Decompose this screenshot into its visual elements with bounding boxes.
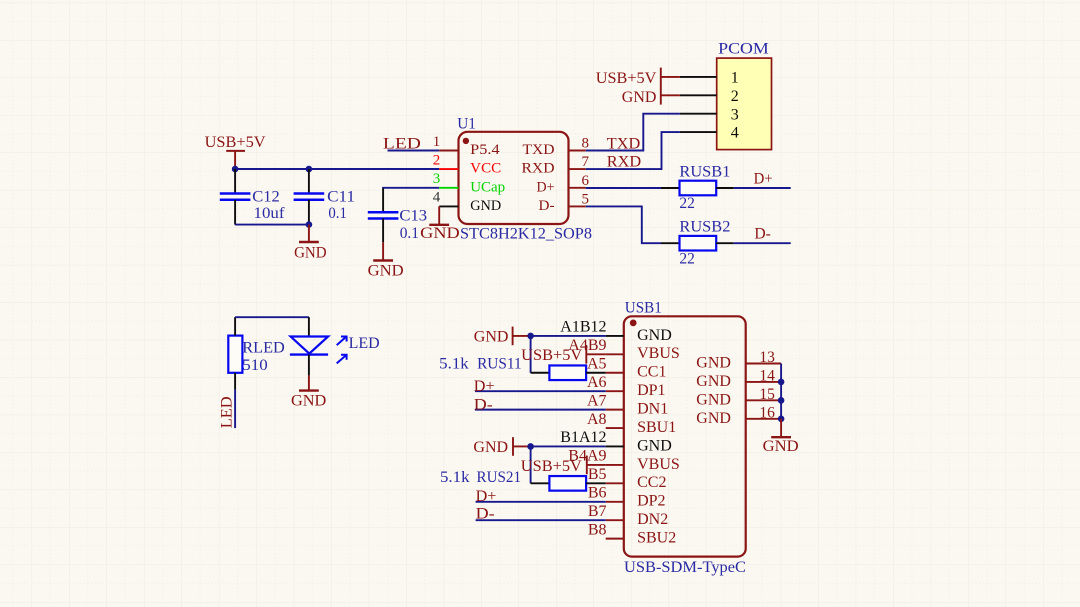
USB1 pin 13 (GND): [696, 349, 781, 371]
USB1 pin A8 (SBU1): [587, 411, 676, 436]
U1 pin 8 (TXD): [523, 136, 590, 159]
svg-text:CC1: CC1: [637, 364, 666, 381]
wire junction down to RUS11: [530, 336, 532, 373]
svg-text:RUSB2: RUSB2: [679, 218, 730, 235]
svg-text:B1A12: B1A12: [560, 429, 606, 446]
LED cathode pin: [308, 355, 310, 376]
node junction pin14: [778, 379, 785, 386]
svg-text:22: 22: [679, 195, 695, 212]
svg-text:1: 1: [433, 134, 441, 150]
resistor RLED bottom pin: [234, 373, 236, 390]
svg-text:VBUS: VBUS: [637, 456, 680, 473]
svg-text:B7: B7: [588, 503, 607, 520]
node junction at C11 top: [306, 166, 313, 173]
PCOM pin 1: [680, 70, 739, 87]
svg-text:GND: GND: [696, 373, 731, 390]
power port GND at PCOM pin2: [622, 86, 680, 106]
label RUSB1: [679, 163, 730, 212]
svg-text:D+: D+: [754, 170, 773, 187]
USB1 pin A4B9 (VBUS): [568, 337, 680, 362]
resistor RUS21 right pin: [586, 482, 606, 484]
svg-text:D-: D-: [476, 506, 495, 523]
ground GND below C13: [368, 242, 404, 279]
svg-text:GND: GND: [696, 410, 731, 427]
wire VCC rail (USB+5V to U1 pin2): [235, 168, 439, 170]
svg-text:0.1: 0.1: [328, 205, 347, 222]
USB1 pin 14 (GND): [696, 368, 781, 390]
USB1 pin 16 (GND): [696, 404, 781, 426]
svg-text:GND: GND: [763, 438, 799, 455]
USB1 pin B1A12 (GND): [560, 429, 672, 454]
svg-text:STC8H2K12_SOP8: STC8H2K12_SOP8: [460, 225, 592, 242]
node junction pin15: [778, 397, 785, 404]
svg-text:USB+5V: USB+5V: [521, 458, 582, 475]
svg-text:DP2: DP2: [637, 493, 665, 510]
USB1 pin A7 (DN1): [587, 392, 668, 417]
svg-text:4: 4: [731, 125, 739, 142]
wire D+ net (right of RUSB1): [734, 187, 791, 189]
svg-text:13: 13: [759, 349, 775, 366]
svg-text:GND: GND: [473, 439, 508, 456]
wire D+ to pin B6: [476, 501, 606, 503]
svg-text:2: 2: [433, 152, 441, 168]
wire LED net to U1 pin1: [388, 150, 440, 152]
USB1 pin A6 (DP1): [587, 374, 666, 399]
label RLED value: [242, 340, 284, 374]
svg-text:D-: D-: [754, 225, 771, 242]
resistor RLED top pin: [234, 317, 236, 335]
ground GND below C11: [294, 225, 327, 262]
U1 pin 5 (D-): [539, 191, 590, 214]
connector PCOM body: [717, 58, 772, 150]
svg-text:GND: GND: [696, 391, 731, 408]
svg-text:8: 8: [582, 136, 590, 152]
USB1 pin B5 (CC2): [588, 466, 667, 491]
U1 pin 3 (UCap): [433, 171, 505, 195]
PCOM pin 2: [680, 88, 739, 105]
svg-text:A5: A5: [587, 355, 607, 372]
svg-text:2: 2: [731, 88, 739, 105]
node junction at C11 bottom: [306, 221, 313, 228]
LED light arrow 1: [337, 337, 347, 346]
resistor RUSB1 body: [680, 181, 717, 196]
svg-text:P5.4: P5.4: [470, 142, 500, 158]
svg-text:DN2: DN2: [637, 511, 668, 528]
wire UCap (U1 pin3 to C13): [383, 188, 439, 189]
resistor RUSB2 right pin: [716, 242, 734, 244]
svg-text:USB-SDM-TypeC: USB-SDM-TypeC: [624, 559, 746, 576]
U1 pin 4 (GND): [433, 190, 502, 214]
wire GND to pin B1A12: [531, 445, 606, 447]
USB1 pin A1B12 (GND): [560, 319, 672, 344]
PCOM pin 4: [680, 125, 739, 142]
svg-text:RUS21: RUS21: [477, 469, 522, 486]
svg-text:RUS11: RUS11: [477, 355, 521, 372]
svg-text:5.1k: 5.1k: [439, 355, 469, 372]
resistor RUS21 body: [549, 476, 586, 491]
LED light arrow 2: [337, 355, 347, 364]
resistor RUS11 left pin: [531, 372, 550, 374]
svg-text:DN1: DN1: [637, 401, 668, 418]
svg-text:C12: C12: [252, 188, 279, 205]
U1 pin 6 (D+): [537, 173, 590, 196]
svg-text:PCOM: PCOM: [718, 41, 769, 58]
USB1 pin B8 (SBU2): [588, 521, 676, 546]
svg-text:RUSB1: RUSB1: [679, 163, 730, 180]
power port USB+5V (top left): [205, 134, 266, 169]
capacitor C13: [368, 188, 399, 242]
svg-text:GND: GND: [291, 392, 326, 409]
svg-text:GND: GND: [294, 244, 327, 261]
PCOM pin 3: [680, 106, 739, 123]
label C13 value: [399, 207, 427, 241]
svg-text:GND: GND: [622, 89, 657, 106]
svg-text:RXD: RXD: [522, 161, 555, 177]
svg-text:C13: C13: [399, 207, 427, 224]
wire D- net (right of RUSB2): [734, 242, 791, 244]
svg-text:UCap: UCap: [470, 179, 505, 195]
svg-text:A6: A6: [587, 374, 607, 391]
label RUS11: [439, 355, 521, 372]
svg-text:1: 1: [731, 70, 739, 87]
USB1 pin B6 (DP2): [588, 484, 666, 509]
wire RXD (U1 pin7 to PCOM pin4): [586, 132, 680, 169]
resistor RUS11 right pin: [586, 372, 606, 374]
U1 pin 7 (RXD): [522, 154, 590, 177]
USB1 pin 15 (GND): [696, 386, 781, 408]
svg-text:SBU1: SBU1: [637, 419, 676, 436]
svg-text:C11: C11: [327, 188, 355, 205]
resistor RUSB2 body: [680, 236, 717, 251]
svg-text:RLED: RLED: [242, 340, 284, 357]
wire D+ to pin A6: [475, 390, 606, 392]
node junction at C12 top: [232, 166, 239, 173]
svg-text:6: 6: [582, 173, 590, 189]
power port USB+5V at PCOM pin1: [596, 68, 680, 88]
USB1 pin A5 (CC1): [587, 355, 667, 380]
node junction pin16: [778, 415, 785, 422]
node junction at RUS21 top: [527, 443, 534, 450]
svg-text:GND: GND: [474, 328, 509, 345]
svg-text:GND: GND: [696, 355, 731, 372]
svg-text:USB+5V: USB+5V: [596, 70, 657, 87]
label RUSB2: [679, 218, 730, 267]
wire GND to pin A1B12: [531, 335, 606, 337]
wire U1 pin6 to RUSB1: [586, 187, 661, 189]
svg-text:TXD: TXD: [607, 136, 640, 153]
svg-text:4: 4: [433, 190, 441, 206]
op IC U1 body STC8H2K12_SOP8: [459, 132, 569, 224]
power port USB+5V at USB1 A4B9: [521, 345, 606, 364]
svg-text:A1B12: A1B12: [560, 319, 606, 336]
svg-text:CC2: CC2: [637, 474, 666, 491]
wire D- to pin B7: [476, 519, 606, 521]
svg-text:15: 15: [759, 386, 775, 403]
svg-text:GND: GND: [368, 262, 404, 279]
resistor RLED body: [228, 336, 242, 373]
node junction at RUS11 top: [527, 333, 534, 340]
svg-text:B8: B8: [588, 521, 607, 538]
power port GND at USB1 B1A12: [473, 437, 530, 456]
svg-text:A7: A7: [587, 392, 607, 409]
svg-text:SBU2: SBU2: [637, 530, 676, 547]
svg-text:16: 16: [759, 404, 775, 421]
label C12 value: [252, 188, 285, 222]
svg-text:USB1: USB1: [625, 300, 662, 317]
svg-text:USB+5V: USB+5V: [205, 134, 266, 151]
resistor RUSB2 left pin: [661, 242, 680, 244]
svg-text:3: 3: [731, 106, 739, 123]
capacitor C12: [220, 169, 251, 225]
label C11 value: [327, 188, 355, 222]
LED D1 anode pin: [308, 317, 310, 336]
svg-text:3: 3: [433, 171, 441, 187]
svg-text:D-: D-: [474, 396, 493, 413]
svg-text:VBUS: VBUS: [637, 345, 680, 362]
svg-text:D-: D-: [539, 198, 555, 214]
LED D1 symbol: [290, 337, 328, 355]
svg-text:B6: B6: [588, 484, 607, 501]
resistor RUS21 left pin: [531, 482, 550, 484]
capacitor C11: [294, 169, 325, 225]
wire RLED top to LED anode: [235, 316, 309, 318]
label RUS21: [440, 469, 521, 486]
connector USB1 body USB-SDM-TypeC: [624, 316, 746, 556]
USB1 pin B4A9 (VBUS): [568, 448, 680, 473]
U1 pin 1 (P5.4): [433, 134, 500, 158]
svg-text:U1: U1: [457, 115, 476, 132]
svg-text:A8: A8: [587, 411, 607, 428]
svg-text:D+: D+: [537, 179, 555, 195]
svg-text:LED: LED: [349, 335, 380, 352]
svg-text:GND: GND: [470, 198, 501, 214]
ground GND for shield pins: [763, 419, 799, 455]
svg-text:USB+5V: USB+5V: [521, 347, 582, 364]
U1 pin 2 (VCC): [433, 152, 501, 176]
svg-text:VCC: VCC: [470, 161, 501, 177]
USB1 pin B7 (DN2): [588, 503, 668, 528]
wire junction down to RUS21: [530, 446, 532, 483]
power port GND at USB1 A1B12: [474, 327, 531, 346]
svg-text:5: 5: [582, 191, 590, 207]
wire shield pins 13-16 bus: [780, 364, 782, 419]
svg-text:GND: GND: [420, 225, 460, 242]
resistor RUSB1 left pin: [661, 187, 680, 189]
svg-text:7: 7: [582, 154, 590, 170]
svg-text:B5: B5: [588, 466, 607, 483]
power port USB+5V at USB1 B4A9: [521, 456, 606, 476]
resistor RUSB1 right pin: [716, 187, 734, 189]
svg-text:5.1k: 5.1k: [440, 469, 470, 486]
svg-text:TXD: TXD: [523, 142, 555, 158]
wire TXD (U1 pin8 to PCOM pin3): [586, 114, 680, 151]
svg-text:510: 510: [242, 357, 267, 374]
svg-text:RXD: RXD: [607, 153, 641, 170]
svg-text:0.1: 0.1: [400, 225, 419, 242]
svg-text:D+: D+: [474, 378, 495, 395]
resistor RUS11 body: [549, 365, 586, 380]
svg-text:GND: GND: [637, 327, 672, 344]
svg-text:D+: D+: [476, 488, 497, 505]
wire U1 pin5 to RUSB2: [586, 206, 661, 243]
wire D- to pin A7: [475, 409, 606, 411]
svg-text:LED: LED: [219, 396, 236, 428]
svg-text:DP1: DP1: [637, 382, 665, 399]
ground GND at U1 pin 4: [420, 206, 460, 241]
wire LED net below RLED: [234, 390, 236, 429]
svg-text:GND: GND: [637, 437, 672, 454]
ground GND below LED: [291, 375, 326, 409]
wire bottom of C12 to C11: [235, 224, 309, 226]
svg-text:14: 14: [759, 368, 775, 385]
svg-text:22: 22: [679, 250, 695, 267]
svg-text:10uf: 10uf: [254, 205, 286, 222]
